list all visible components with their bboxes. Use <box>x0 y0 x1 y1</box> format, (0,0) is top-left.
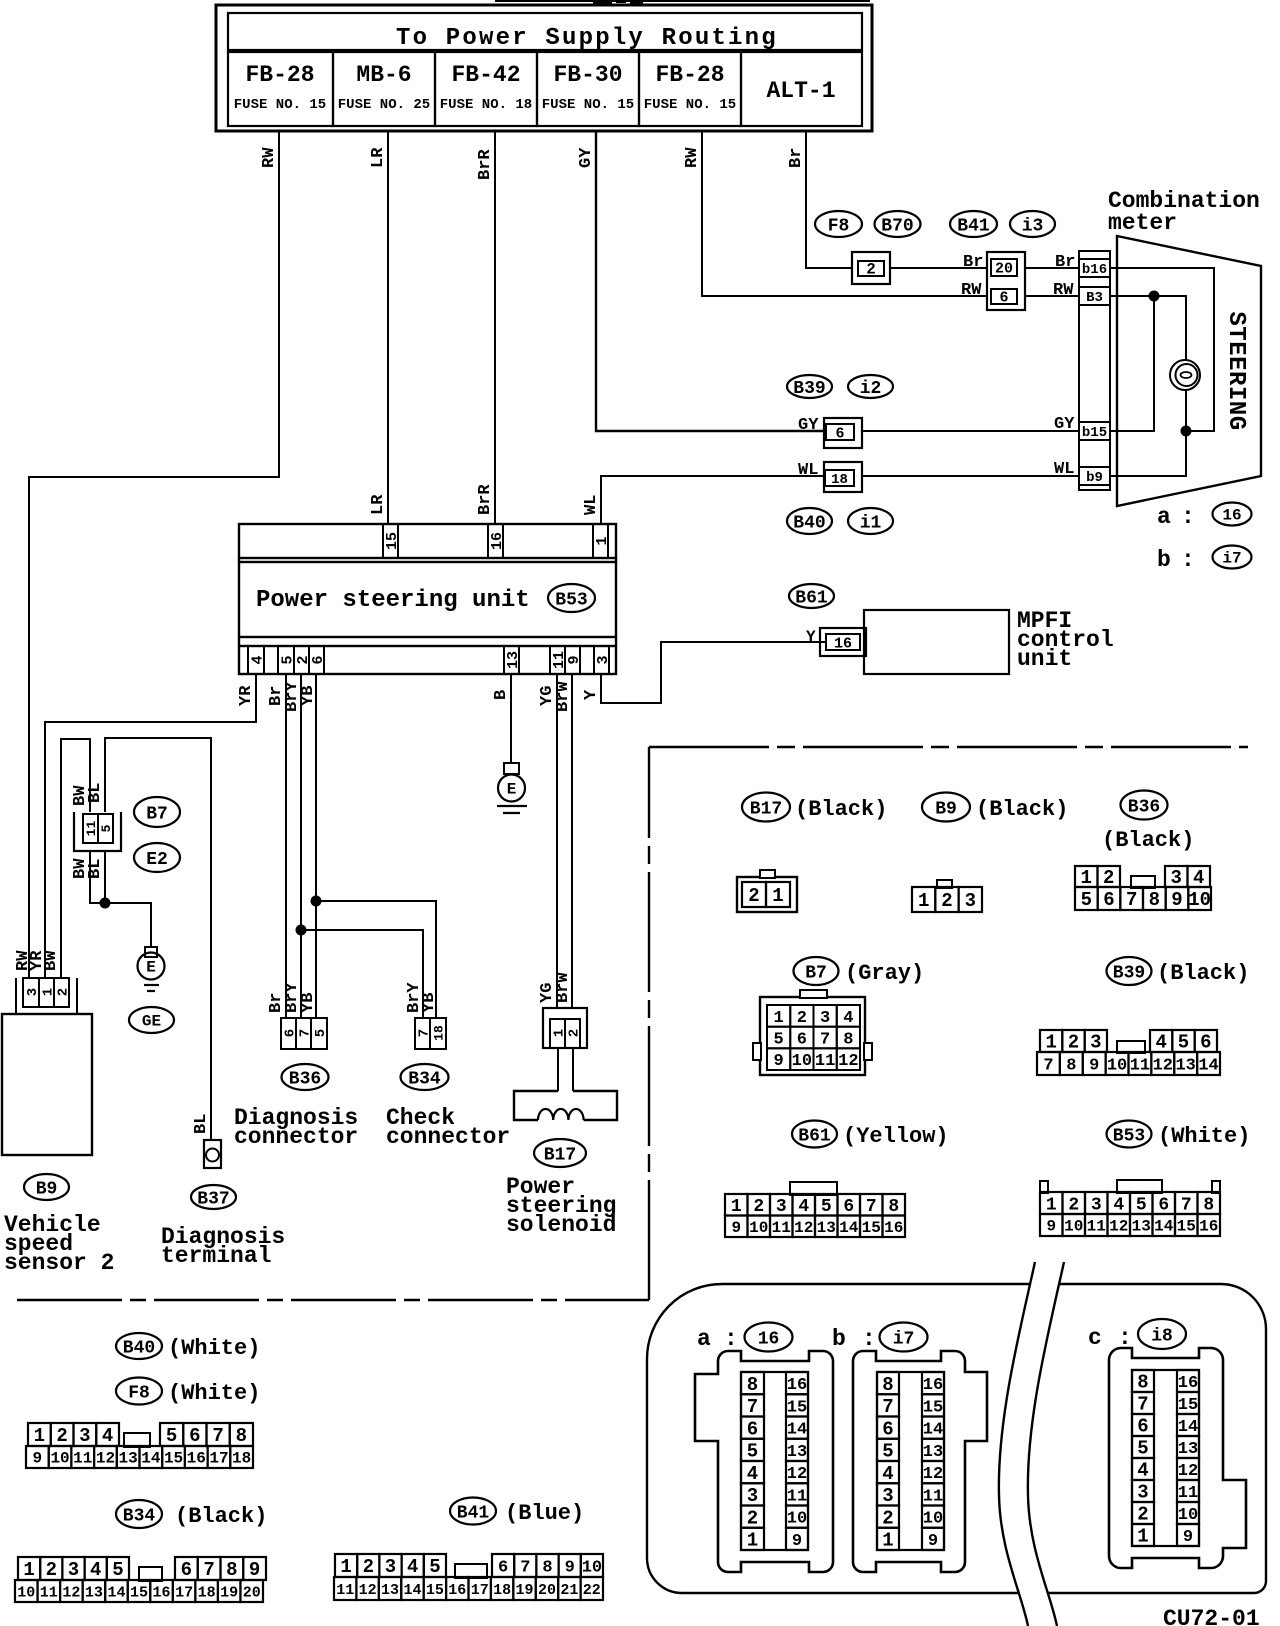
svg-text:2: 2 <box>748 885 759 907</box>
svg-text:(Black): (Black) <box>795 797 887 822</box>
svg-text:4: 4 <box>1155 1032 1166 1054</box>
svg-text:9: 9 <box>792 1532 802 1551</box>
svg-text:b15: b15 <box>1082 425 1107 441</box>
svg-text:B9: B9 <box>36 1179 58 1199</box>
svg-text:6: 6 <box>181 1559 192 1581</box>
meter connector a:16 note <box>1157 503 1252 531</box>
svg-text:B: B <box>492 690 511 700</box>
svg-text:7: 7 <box>417 1029 433 1037</box>
svg-text:3: 3 <box>882 1485 893 1507</box>
ref oval B17 face view <box>742 793 887 823</box>
STEERING text in meter <box>1222 311 1249 430</box>
svg-text:11: 11 <box>815 1052 835 1071</box>
wire Br from ALT-1 to connector F8/B70 <box>787 131 852 268</box>
svg-text:14: 14 <box>107 1584 125 1601</box>
wire lamp to b9 <box>1110 390 1186 476</box>
svg-text:i1: i1 <box>860 513 882 533</box>
svg-text::: : <box>1181 547 1195 573</box>
svg-text:8: 8 <box>843 1030 853 1049</box>
connector B34 face view <box>15 1557 266 1602</box>
svg-text:14: 14 <box>403 1582 421 1599</box>
connector ref oval B70 <box>875 211 921 237</box>
svg-text:2: 2 <box>1103 867 1114 889</box>
svg-text:7: 7 <box>1043 1056 1053 1075</box>
ref oval B7 <box>134 797 180 827</box>
svg-text:13: 13 <box>505 651 522 669</box>
svg-text:14: 14 <box>923 1421 943 1440</box>
svg-text:17: 17 <box>471 1582 489 1599</box>
connector ref oval B41 <box>950 211 997 237</box>
svg-text:B17: B17 <box>750 799 782 819</box>
svg-text:16: 16 <box>1178 1374 1198 1393</box>
junction BW/BL <box>100 898 111 909</box>
svg-text:13: 13 <box>381 1582 399 1599</box>
combination meter body outline <box>1117 236 1261 506</box>
svg-text:13: 13 <box>1175 1056 1195 1075</box>
svg-text:4: 4 <box>102 1425 113 1447</box>
svg-text:16: 16 <box>187 1450 206 1468</box>
svg-text:B41: B41 <box>957 216 990 236</box>
fuse cell FB-30 no.15 <box>537 52 639 126</box>
svg-text:B61: B61 <box>798 1126 831 1146</box>
svg-text:21: 21 <box>560 1582 578 1599</box>
fuse cell MB-6 no.25 <box>333 52 435 126</box>
svg-text:3: 3 <box>1090 1032 1101 1054</box>
svg-text:12: 12 <box>787 1465 807 1484</box>
svg-text:16: 16 <box>758 1329 780 1349</box>
svg-text:4: 4 <box>798 1197 809 1217</box>
svg-text:10: 10 <box>787 1510 807 1529</box>
svg-text:B40: B40 <box>123 1338 155 1358</box>
wire RW from FB-28 to connector B41/i3 pin 6 <box>683 131 987 296</box>
svg-text:FUSE NO. 18: FUSE NO. 18 <box>440 97 532 113</box>
svg-text:16: 16 <box>834 635 852 652</box>
wire WL from B40/i1 to combination meter b9 <box>862 460 1079 479</box>
svg-text:B36: B36 <box>1128 797 1160 817</box>
svg-text:1: 1 <box>772 885 783 907</box>
connector B39 face view <box>1037 1030 1220 1075</box>
connector B40/i1 pin 18 <box>824 462 862 492</box>
svg-text:18: 18 <box>831 472 848 488</box>
svg-text:2: 2 <box>1068 1195 1079 1215</box>
svg-text:Br: Br <box>963 253 983 272</box>
drawing number CU72-01 <box>1163 1606 1260 1626</box>
svg-text:YB: YB <box>299 993 318 1013</box>
svg-text:3: 3 <box>79 1425 90 1447</box>
svg-text:22: 22 <box>583 1582 601 1599</box>
combination meter label <box>1108 188 1260 236</box>
power steering unit bottom connector strip <box>239 646 616 674</box>
ref oval B9 <box>24 1174 69 1200</box>
svg-text:18: 18 <box>198 1584 216 1601</box>
svg-text:1: 1 <box>41 988 57 996</box>
svg-text:3: 3 <box>820 1009 830 1028</box>
svg-text:18: 18 <box>493 1582 511 1599</box>
svg-text:12: 12 <box>1109 1218 1128 1236</box>
svg-text:10: 10 <box>1107 1056 1127 1075</box>
svg-text:1: 1 <box>747 1530 758 1552</box>
svg-text:E: E <box>507 781 517 799</box>
svg-text:13: 13 <box>1178 1440 1198 1459</box>
svg-text:WL: WL <box>798 461 818 480</box>
vehicle speed sensor 2 label <box>4 1212 114 1276</box>
svg-text:9: 9 <box>1089 1056 1099 1075</box>
svg-text:F8: F8 <box>828 216 850 236</box>
ref oval F8 face view <box>116 1378 260 1407</box>
svg-text:2: 2 <box>1068 1032 1079 1054</box>
svg-text:6: 6 <box>498 1558 508 1577</box>
svg-text:GY: GY <box>577 147 596 168</box>
connector B7 inline pins 11 and 5 <box>74 812 121 851</box>
svg-text:12: 12 <box>923 1465 943 1484</box>
diagnosis terminal symbol <box>204 1140 221 1168</box>
wire B from PSU pin 13 to ground <box>492 674 511 763</box>
svg-text:15: 15 <box>923 1398 943 1417</box>
wire YB branch to B34 pin 18 <box>316 901 439 1018</box>
svg-text:B70: B70 <box>881 216 913 236</box>
ref oval B37 <box>191 1185 236 1209</box>
connector ref oval B40 <box>787 508 832 534</box>
svg-text:2: 2 <box>941 890 952 912</box>
wire YG from PSU pin 11 to solenoid connector pin 1 <box>538 674 557 1008</box>
svg-text:5: 5 <box>774 1030 784 1049</box>
svg-text:20: 20 <box>243 1584 261 1601</box>
svg-text:14: 14 <box>1178 1418 1198 1437</box>
svg-text:7: 7 <box>212 1425 223 1447</box>
svg-text:11: 11 <box>787 1487 807 1506</box>
svg-text:1: 1 <box>552 1029 568 1037</box>
svg-text:4: 4 <box>407 1556 418 1578</box>
svg-text:6: 6 <box>797 1030 807 1049</box>
svg-text:8: 8 <box>888 1197 899 1217</box>
svg-text:LR: LR <box>369 147 388 168</box>
svg-text:4: 4 <box>843 1009 853 1028</box>
svg-text:11: 11 <box>1130 1056 1150 1075</box>
svg-text:2: 2 <box>46 1559 57 1581</box>
svg-text:7: 7 <box>1181 1195 1192 1215</box>
wire BrY branch to B34 pin 7 <box>301 930 424 1018</box>
junction BrY branch <box>296 925 307 936</box>
connector ref oval B39 <box>787 375 832 399</box>
connector B41/i3 pins 20 and 6 <box>987 252 1025 310</box>
svg-text:11: 11 <box>40 1584 58 1601</box>
svg-text:11: 11 <box>772 1219 791 1237</box>
svg-text:B7: B7 <box>805 963 827 983</box>
connector ref oval i2 <box>848 375 893 399</box>
combination meter connector strip <box>1079 251 1110 490</box>
svg-text:(Black): (Black) <box>976 797 1068 822</box>
PSU pin 11 <box>550 646 568 674</box>
svg-text:GY: GY <box>1054 415 1075 434</box>
svg-text:F8: F8 <box>128 1383 150 1403</box>
svg-text:FUSE NO. 15: FUSE NO. 15 <box>234 97 326 113</box>
svg-text:16: 16 <box>153 1584 171 1601</box>
svg-text:11: 11 <box>73 1450 92 1468</box>
svg-text:3: 3 <box>1137 1482 1148 1504</box>
svg-text:7: 7 <box>298 1029 314 1037</box>
svg-text:2: 2 <box>56 988 72 996</box>
svg-text:17: 17 <box>209 1450 228 1468</box>
ref oval B36 face view <box>1102 791 1194 854</box>
connector B36 face view <box>1075 866 1211 911</box>
wire BL below B7 to junction <box>86 851 105 903</box>
svg-text:2: 2 <box>56 1425 67 1447</box>
connector a pins 8-1 <box>741 1372 764 1552</box>
svg-text:4: 4 <box>1193 867 1204 889</box>
svg-text:b: b <box>1157 547 1171 573</box>
svg-text:5: 5 <box>166 1425 177 1447</box>
svg-text:19: 19 <box>220 1584 238 1601</box>
power steering unit body <box>239 558 616 646</box>
ref oval B41 face view <box>450 1498 584 1527</box>
fuse cell ALT-1 <box>741 52 862 126</box>
svg-text:B53: B53 <box>1113 1126 1145 1146</box>
svg-text:11: 11 <box>84 821 99 837</box>
svg-text:17: 17 <box>175 1584 193 1601</box>
svg-text:(Yellow): (Yellow) <box>843 1124 949 1149</box>
wire BrR from FB-42 to power steering unit pin 16 <box>476 131 495 524</box>
svg-text:20: 20 <box>538 1582 556 1599</box>
svg-text:6: 6 <box>189 1425 200 1447</box>
wire Br from F8/B70 to B41/i3 pin 20 <box>890 253 987 272</box>
svg-text:13: 13 <box>787 1443 807 1462</box>
connector F8/B70 pin 2 <box>852 252 890 284</box>
ref oval B34 face view <box>116 1500 267 1529</box>
svg-text:1: 1 <box>1046 1195 1057 1215</box>
svg-text:B7: B7 <box>146 804 168 824</box>
connector a pins 16-9 <box>786 1372 808 1551</box>
svg-text:3: 3 <box>965 890 976 912</box>
svg-text:BrY: BrY <box>405 982 424 1013</box>
svg-text:(White): (White) <box>1158 1124 1250 1149</box>
svg-text:4: 4 <box>1113 1195 1124 1215</box>
svg-text:GE: GE <box>142 1013 161 1031</box>
ref oval GE <box>129 1007 174 1033</box>
wire Y from PSU pin 3 to MPFI pin 16 <box>582 642 826 703</box>
svg-text:Y: Y <box>806 628 816 646</box>
svg-text:B37: B37 <box>197 1189 229 1209</box>
svg-text:(Gray): (Gray) <box>845 961 924 986</box>
svg-text:12: 12 <box>359 1582 377 1599</box>
svg-text:10: 10 <box>50 1450 69 1468</box>
svg-text:8: 8 <box>1066 1056 1076 1075</box>
PSU pin 4 <box>248 646 266 674</box>
ref oval B53 face view <box>1107 1121 1251 1150</box>
power steering unit B53 top connector strip <box>239 524 616 558</box>
wire from B3 junction to b15 <box>1110 296 1154 431</box>
svg-text:B40: B40 <box>793 513 825 533</box>
svg-text:BL: BL <box>86 783 105 803</box>
svg-text:meter: meter <box>1108 210 1177 236</box>
svg-text:15: 15 <box>787 1398 807 1417</box>
meter connector b:i7 note <box>1157 546 1252 574</box>
ground E from pin 13 <box>497 763 527 813</box>
wire RW from FB-28 to vehicle speed sensor pin 3 <box>29 131 279 978</box>
fuse cell FB-42 no.18 <box>435 52 537 126</box>
svg-text:i7: i7 <box>1222 550 1241 568</box>
fuse cell FB-28 no.15 <box>228 52 333 126</box>
svg-text:YR: YR <box>28 950 47 971</box>
label RW at B41/i3 pin 6 <box>961 281 982 300</box>
svg-text:2: 2 <box>1137 1504 1148 1526</box>
svg-text:connector: connector <box>234 1124 358 1150</box>
svg-text:BrR: BrR <box>476 484 495 515</box>
svg-text:18: 18 <box>432 1025 447 1041</box>
dash-dot separator left bottom <box>17 1299 649 1302</box>
svg-text:1: 1 <box>340 1556 351 1578</box>
svg-text:B9: B9 <box>935 799 957 819</box>
svg-text:B3: B3 <box>1086 290 1103 306</box>
svg-text:4: 4 <box>90 1559 101 1581</box>
svg-text:14: 14 <box>839 1219 859 1237</box>
svg-text:BrW: BrW <box>554 972 573 1003</box>
wire YB from PSU pin 6 to B36 pin 5 <box>299 674 318 1018</box>
vehicle speed sensor 2 body <box>2 1014 92 1155</box>
svg-text:6: 6 <box>882 1418 893 1440</box>
svg-text::: : <box>862 1326 876 1352</box>
svg-text:14: 14 <box>1154 1218 1174 1236</box>
svg-text:14: 14 <box>787 1421 807 1440</box>
svg-text:8: 8 <box>1203 1195 1214 1215</box>
svg-text:1: 1 <box>731 1197 742 1217</box>
svg-text:8: 8 <box>226 1559 237 1581</box>
svg-text:(Black): (Black) <box>175 1504 267 1529</box>
ref oval B40 face view <box>116 1333 260 1361</box>
svg-text:14: 14 <box>141 1450 161 1468</box>
connector face a:16 label <box>697 1323 793 1353</box>
svg-text:6: 6 <box>310 655 327 664</box>
svg-text:FUSE NO. 25: FUSE NO. 25 <box>338 97 430 113</box>
svg-text:ALT-1: ALT-1 <box>766 78 835 104</box>
PSU pin 1 <box>593 524 611 558</box>
svg-text:RW: RW <box>683 147 702 168</box>
meter pin b16 <box>1079 259 1110 278</box>
PSU pin 9 <box>565 646 583 674</box>
connector b pins 8-1 <box>877 1372 899 1552</box>
svg-text:8: 8 <box>882 1374 893 1396</box>
svg-text:15: 15 <box>164 1450 183 1468</box>
svg-text:2: 2 <box>747 1507 758 1529</box>
svg-text:MB-6: MB-6 <box>356 62 411 88</box>
diagnosis terminal label <box>161 1224 285 1269</box>
svg-text:8: 8 <box>1137 1372 1148 1394</box>
PSU pin 6 <box>309 646 327 674</box>
svg-text:connector: connector <box>386 1124 510 1150</box>
svg-text:2: 2 <box>753 1197 764 1217</box>
wire WL from power steering unit pin 1 to B40/i1 pin 18 <box>582 461 824 524</box>
svg-text:6: 6 <box>835 425 844 442</box>
connector B41 face view <box>334 1554 603 1600</box>
svg-text:2: 2 <box>363 1556 374 1578</box>
wire BrW from PSU pin 9 to solenoid connector pin 2 <box>554 674 573 1008</box>
ref oval E2 <box>134 843 180 872</box>
svg-text:15: 15 <box>862 1219 881 1237</box>
svg-text:8: 8 <box>747 1374 758 1396</box>
svg-text:FB-28: FB-28 <box>245 62 314 88</box>
svg-text:15: 15 <box>1177 1218 1196 1236</box>
svg-text:solenoid: solenoid <box>506 1212 616 1238</box>
svg-text:(White): (White) <box>168 1336 260 1361</box>
diagnosis connector B36 pins 6 7 5 <box>281 1018 329 1049</box>
svg-text:6: 6 <box>1137 1416 1148 1438</box>
svg-text:2: 2 <box>866 261 876 279</box>
PSU pin 5 <box>278 646 296 674</box>
svg-text:b: b <box>832 1326 846 1352</box>
svg-text:2: 2 <box>882 1507 893 1529</box>
meter pin b9 <box>1079 467 1110 486</box>
svg-text:13: 13 <box>1132 1218 1151 1236</box>
wire LR from MB-6 to power steering unit pin 15 <box>369 131 388 524</box>
svg-text:16: 16 <box>787 1376 807 1395</box>
power steering solenoid body with coil <box>514 1091 617 1120</box>
svg-text:12: 12 <box>1153 1056 1173 1075</box>
svg-text:7: 7 <box>866 1197 877 1217</box>
power steering solenoid label <box>506 1174 616 1238</box>
svg-text:6: 6 <box>999 289 1008 306</box>
svg-text:15: 15 <box>384 532 401 550</box>
connector c pins 8-1 <box>1132 1370 1154 1548</box>
svg-text:6: 6 <box>1158 1195 1169 1215</box>
ref oval B34 <box>401 1064 449 1090</box>
svg-text:5: 5 <box>1081 889 1092 911</box>
svg-text:FB-42: FB-42 <box>451 62 520 88</box>
svg-text:16: 16 <box>1199 1218 1218 1236</box>
svg-text:5: 5 <box>112 1559 123 1581</box>
PSU pin 13 <box>504 646 522 674</box>
power steering solenoid connector B17 pins 1 2 <box>543 1008 587 1048</box>
connector face c:i8 label <box>1088 1319 1186 1351</box>
svg-text:Br: Br <box>787 148 806 168</box>
ref oval B36 <box>282 1064 329 1090</box>
wire YR from PSU pin 4 to speed sensor pin 1 <box>45 674 256 978</box>
svg-text:16: 16 <box>1222 507 1241 525</box>
svg-text:2: 2 <box>797 1009 807 1028</box>
svg-text:9: 9 <box>928 1532 938 1551</box>
svg-text:16: 16 <box>489 532 506 550</box>
ground E left <box>138 947 165 991</box>
svg-text:B41: B41 <box>457 1503 490 1523</box>
MPFI connector pin 16 <box>806 628 866 656</box>
svg-text:16: 16 <box>884 1219 903 1237</box>
wire GY from FB-30 to connector B39/i2 <box>577 131 824 431</box>
connector B17 face view <box>737 870 797 912</box>
svg-text::: : <box>1181 504 1195 530</box>
svg-text:6: 6 <box>283 1029 299 1037</box>
svg-text:19: 19 <box>516 1582 534 1599</box>
svg-text:Power steering unit: Power steering unit <box>256 587 530 614</box>
svg-text:12: 12 <box>62 1584 80 1601</box>
svg-text:BL: BL <box>86 859 105 879</box>
svg-text:10: 10 <box>923 1510 943 1529</box>
svg-text:B34: B34 <box>123 1506 156 1526</box>
dash-dot border of connector-view section <box>649 747 1248 1300</box>
svg-text:1: 1 <box>23 1559 34 1581</box>
svg-text:9: 9 <box>774 1052 784 1071</box>
svg-text:3: 3 <box>25 988 41 996</box>
svg-text:4: 4 <box>882 1463 893 1485</box>
vehicle speed sensor 2 connector pins 3 1 2 <box>16 978 77 1014</box>
svg-text:15: 15 <box>426 1582 444 1599</box>
svg-text:1: 1 <box>1137 1526 1148 1548</box>
ref oval B53 in PSU <box>548 584 595 612</box>
svg-text:9: 9 <box>249 1559 260 1581</box>
svg-text:7: 7 <box>882 1396 893 1418</box>
svg-text:E2: E2 <box>146 850 168 870</box>
PSU pin 3 <box>594 646 612 674</box>
svg-text:16: 16 <box>448 1582 466 1599</box>
svg-text:FB-30: FB-30 <box>553 62 622 88</box>
svg-text:B34: B34 <box>408 1069 441 1089</box>
